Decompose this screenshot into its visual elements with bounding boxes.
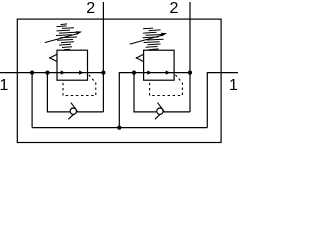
svg-text:2: 2: [86, 0, 95, 17]
svg-text:2: 2: [170, 0, 179, 17]
svg-text:1: 1: [229, 77, 238, 94]
svg-text:1: 1: [0, 77, 8, 94]
